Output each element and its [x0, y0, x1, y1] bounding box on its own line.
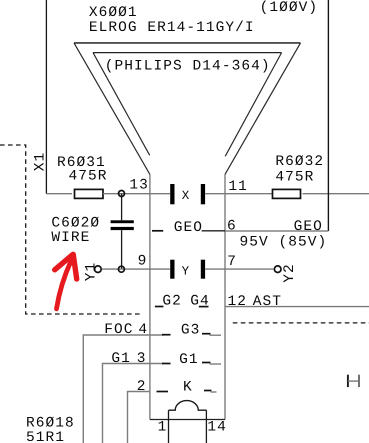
- grid G4 stub right: [199, 306, 209, 308]
- wire R6032 to right edge: [303, 193, 369, 195]
- svg-text:G3: G3: [181, 322, 201, 338]
- svg-text:9: 9: [138, 254, 148, 270]
- svg-text:X: X: [182, 189, 190, 203]
- CRT funnel outer top: [74, 42, 301, 44]
- svg-text:GEO: GEO: [294, 219, 323, 235]
- wire GEO to neck wall: [202, 230, 225, 232]
- svg-text:G1: G1: [179, 352, 199, 368]
- heater filament: [169, 401, 207, 411]
- svg-text:Y: Y: [182, 264, 190, 278]
- heater pin 1 wire: [168, 410, 170, 443]
- X deflection plate left: [170, 184, 174, 204]
- terminal Y2 circle: [274, 266, 281, 273]
- svg-text:GEO: GEO: [174, 220, 203, 236]
- wire C6020 to Y node: [121, 230, 123, 269]
- heater pin 14 wire: [205, 410, 207, 443]
- junction node Y: [118, 266, 124, 272]
- grid G1 stub right tail: [210, 363, 222, 365]
- svg-text:12: 12: [228, 294, 248, 310]
- wire X1 vertical: [45, 0, 47, 194]
- cathode K stub right: [204, 390, 212, 392]
- cathode K stub left: [157, 391, 169, 393]
- svg-text:AST: AST: [253, 294, 282, 310]
- dashed highlight box: [0, 145, 142, 314]
- wire R6031 to X plate: [103, 193, 170, 195]
- dashed partition right: [233, 322, 369, 324]
- svg-text:2: 2: [137, 379, 147, 395]
- svg-text:Y2: Y2: [282, 263, 298, 283]
- svg-text:X1: X1: [33, 152, 49, 172]
- CRT neck right wall: [224, 174, 226, 419]
- wire X plate to R6032: [205, 193, 272, 195]
- capacitor C6020 top plate: [111, 220, 134, 223]
- svg-text:ELROG ER14-11GY/I: ELROG ER14-11GY/I: [89, 20, 255, 36]
- svg-text:G1: G1: [111, 351, 131, 367]
- grid G3 stub right tail: [210, 334, 222, 336]
- svg-text:95V (85V): 95V (85V): [240, 235, 328, 251]
- wire G1: [103, 364, 164, 443]
- resistor R6032: [273, 189, 301, 198]
- svg-text:(PHILIPS D14-364): (PHILIPS D14-364): [105, 58, 271, 74]
- svg-text:3: 3: [137, 351, 147, 367]
- wire Y1 to node: [102, 268, 170, 270]
- Y deflection plate left: [170, 260, 174, 279]
- svg-text:7: 7: [227, 254, 237, 270]
- wire FOC: [83, 335, 163, 443]
- svg-text:475R: 475R: [275, 170, 314, 186]
- capacitor C6020 bottom plate: [111, 227, 134, 230]
- resistor R6031: [75, 189, 104, 198]
- CRT funnel right outer wall: [225, 43, 301, 175]
- svg-text:14: 14: [207, 420, 227, 436]
- junction node: [119, 191, 125, 197]
- red annotation arrow: [55, 254, 77, 308]
- grid G1 stub right: [202, 362, 211, 364]
- svg-text:G2: G2: [162, 294, 182, 310]
- wire cathode: [128, 392, 150, 443]
- svg-text:X6ØØ1: X6ØØ1: [89, 5, 138, 21]
- wire pin6 to riser: [225, 230, 328, 232]
- wire AST: [225, 306, 369, 308]
- svg-text:6: 6: [227, 219, 237, 235]
- svg-text:R6Ø32: R6Ø32: [275, 154, 324, 170]
- grid G2 stub left: [155, 306, 164, 308]
- connector H symbol: [348, 375, 359, 387]
- svg-text:(1ØØV): (1ØØV): [260, 0, 319, 16]
- svg-text:11: 11: [228, 179, 248, 195]
- wire GEO vertical riser: [327, 0, 329, 231]
- grid G3 stub left: [162, 334, 171, 336]
- CRT funnel left outer wall: [74, 43, 150, 175]
- X deflection plate right: [201, 184, 205, 204]
- terminal Y1 circle: [95, 266, 102, 273]
- grid GEO stub left: [152, 230, 163, 232]
- svg-text:475R: 475R: [69, 168, 108, 184]
- CRT funnel left inner wall: [93, 53, 150, 156]
- CRT neck bottom: [150, 419, 225, 421]
- CRT neck left wall: [149, 174, 151, 419]
- Y deflection plate right: [201, 260, 205, 279]
- svg-text:WIRE: WIRE: [51, 230, 90, 246]
- svg-text:13: 13: [129, 177, 149, 193]
- svg-text:1: 1: [158, 420, 168, 436]
- cathode K stub right tail: [211, 391, 217, 393]
- CRT funnel right inner wall: [225, 53, 281, 157]
- wire Y plate to Y2: [205, 268, 273, 270]
- CRT funnel inner top: [93, 52, 282, 54]
- svg-text:K: K: [183, 380, 193, 396]
- wire node to C6020: [121, 194, 123, 221]
- grid G1 stub left: [162, 363, 171, 365]
- grid G3 stub right: [202, 333, 211, 335]
- wire to R6031: [46, 193, 72, 195]
- svg-text:C6Ø2Ø: C6Ø2Ø: [51, 216, 100, 232]
- svg-text:51R1: 51R1: [26, 430, 65, 443]
